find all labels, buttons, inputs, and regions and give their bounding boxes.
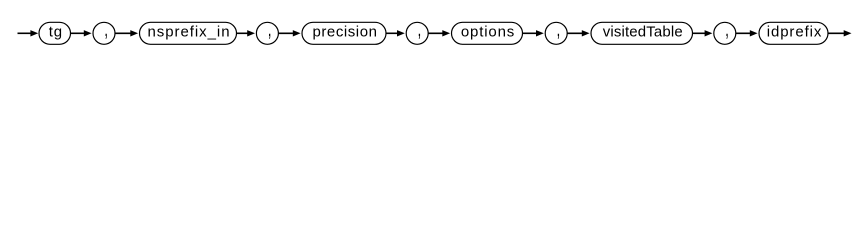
terminal box options bbox=[452, 22, 523, 44]
svg-text:visitedTable: visitedTable bbox=[603, 24, 683, 41]
terminal box tg bbox=[39, 22, 71, 44]
terminal box visitedTable bbox=[591, 22, 693, 44]
wire arrow comma 3 to options bbox=[428, 32, 444, 34]
svg-text:,: , bbox=[557, 17, 561, 41]
comma separator 3 bbox=[406, 22, 428, 44]
svg-text:tg: tg bbox=[49, 24, 63, 41]
wire arrow comma 2 to precision bbox=[278, 32, 295, 34]
svg-text:precision: precision bbox=[313, 24, 378, 41]
comma separator 2 bbox=[256, 22, 278, 44]
wire arrow tg to comma 1 bbox=[71, 32, 87, 34]
terminal box nsprefix_in bbox=[140, 22, 237, 44]
wire arrow comma 4 to visitedTable bbox=[567, 32, 584, 34]
wire arrow comma 5 to idprefix bbox=[736, 32, 752, 34]
wire exit arrow bbox=[828, 32, 846, 34]
svg-text:nsprefix_in: nsprefix_in bbox=[148, 24, 231, 41]
terminal box idprefix bbox=[759, 22, 828, 44]
comma separator 5 bbox=[714, 22, 736, 44]
svg-text:,: , bbox=[104, 17, 108, 41]
svg-text:,: , bbox=[725, 17, 729, 41]
comma separator 4 bbox=[545, 22, 567, 44]
svg-text:,: , bbox=[418, 17, 422, 41]
wire arrow options to comma 4 bbox=[523, 32, 539, 34]
wire entry arrow bbox=[18, 32, 33, 34]
svg-text:,: , bbox=[268, 17, 272, 41]
wire arrow visitedTable to comma 5 bbox=[693, 32, 707, 34]
svg-text:idprefix: idprefix bbox=[767, 24, 823, 41]
wire arrow comma 1 to nsprefix_in bbox=[115, 32, 133, 34]
comma separator 1 bbox=[93, 22, 115, 44]
terminal box precision bbox=[302, 22, 386, 44]
svg-text:options: options bbox=[461, 24, 515, 41]
wire arrow nsprefix_in to comma 2 bbox=[237, 32, 250, 34]
wire arrow precision to comma 3 bbox=[386, 32, 399, 34]
